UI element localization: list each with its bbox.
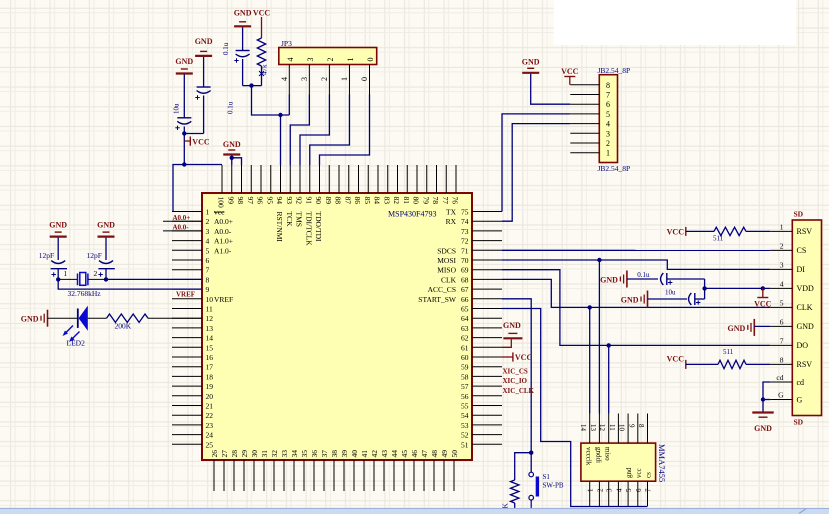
svg-text:RSV: RSV	[797, 360, 813, 369]
svg-text:6: 6	[635, 488, 643, 492]
wire JP3 pin4 to RST net	[288, 95, 290, 116]
accelerometer U2 top pins 14-8	[590, 414, 648, 444]
wire GND to LED cathode	[48, 317, 78, 319]
svg-text:0.1u: 0.1u	[227, 101, 235, 114]
wire C-10u to VDD	[695, 298, 705, 300]
ground GND (LED)	[21, 310, 48, 327]
svg-text:19: 19	[206, 382, 214, 391]
svg-text:4: 4	[606, 120, 610, 129]
svg-text:45: 45	[400, 450, 409, 458]
svg-text:vccclk: vccclk	[585, 447, 593, 466]
svg-text:46: 46	[410, 450, 419, 458]
svg-text:MMA7455: MMA7455	[657, 444, 667, 482]
connector SD body	[792, 220, 821, 416]
svg-text:53: 53	[461, 421, 469, 430]
svg-text:4: 4	[286, 58, 295, 62]
svg-text:30: 30	[250, 450, 259, 458]
svg-text:VCC: VCC	[754, 299, 772, 308]
wire JP3 pin0 to TDO	[320, 95, 370, 166]
svg-text:XIC_CS: XIC_CS	[503, 368, 528, 376]
svg-text:14: 14	[579, 424, 587, 432]
wire branch to pin98	[232, 158, 242, 165]
svg-text:3: 3	[300, 77, 309, 81]
wire RST to MCU pin94	[280, 115, 282, 165]
wire JP3 pin2 to TMS	[300, 95, 329, 166]
junction	[182, 131, 186, 135]
svg-text:GND: GND	[621, 296, 639, 305]
svg-text:8: 8	[780, 355, 784, 364]
svg-text:58: 58	[461, 372, 469, 381]
svg-text:98: 98	[236, 197, 245, 205]
svg-text:66: 66	[461, 295, 469, 304]
wire VCC node horizontal	[184, 133, 203, 135]
junction	[249, 83, 253, 87]
svg-text:56: 56	[461, 392, 469, 401]
svg-text:2: 2	[94, 269, 98, 278]
wire GND to C-10u	[183, 75, 185, 118]
svg-text:28: 28	[230, 450, 239, 458]
svg-text:4: 4	[780, 279, 784, 288]
capacitor 0.1u (left)	[195, 87, 210, 100]
svg-text:85: 85	[363, 197, 372, 205]
svg-text:37: 37	[320, 450, 329, 458]
svg-text:1: 1	[206, 208, 210, 217]
svg-text:20: 20	[206, 392, 214, 401]
svg-text:44: 44	[390, 450, 399, 458]
wire VCC node to MCU pin100/pin1	[173, 134, 184, 212]
svg-text:55: 55	[461, 402, 469, 411]
svg-text:68: 68	[461, 275, 469, 284]
svg-text:78: 78	[431, 197, 440, 205]
wire G pin	[763, 399, 770, 401]
svg-text:2: 2	[780, 241, 784, 250]
svg-text:84: 84	[373, 197, 382, 205]
junction MOSI/MMA di	[597, 258, 601, 262]
svg-text:95: 95	[265, 197, 274, 205]
svg-text:12pF: 12pF	[39, 251, 54, 260]
wire CLK branch to MMA7455 pin14	[589, 307, 591, 413]
capacitor 10u	[175, 118, 191, 130]
svg-text:11: 11	[206, 305, 213, 314]
svg-text:9: 9	[206, 285, 210, 294]
svg-text:94: 94	[275, 197, 284, 205]
junction cd/G	[761, 397, 765, 401]
svg-text:MISO: MISO	[437, 266, 456, 275]
svg-text:100: 100	[217, 197, 226, 209]
svg-text:32.768kHz: 32.768kHz	[68, 289, 102, 298]
scrollbar (window chrome)	[0, 508, 829, 514]
svg-text:8: 8	[637, 424, 645, 428]
svg-text:VCC: VCC	[667, 227, 685, 236]
ground GND (JB pin6)	[522, 58, 540, 73]
svg-text:22: 22	[206, 411, 214, 420]
svg-text:34: 34	[290, 450, 299, 458]
svg-text:5: 5	[780, 298, 784, 307]
svg-text:40: 40	[350, 450, 359, 458]
svg-text:TMS: TMS	[295, 212, 304, 227]
svg-text:RSV: RSV	[797, 227, 813, 236]
svg-text:65: 65	[461, 305, 469, 314]
svg-text:52: 52	[461, 431, 469, 440]
svg-text:4: 4	[206, 237, 210, 246]
svg-text:A0.0+: A0.0+	[214, 217, 233, 226]
svg-text:VCC: VCC	[192, 137, 210, 146]
svg-text:VDD: VDD	[797, 284, 815, 293]
svg-text:61: 61	[461, 343, 469, 352]
svg-text:69: 69	[461, 266, 469, 275]
ground GND (10u bypass)	[621, 291, 648, 308]
svg-text:GND: GND	[522, 58, 540, 67]
svg-text:GND: GND	[21, 315, 39, 324]
svg-text:GND: GND	[754, 424, 772, 433]
connector JB2.54_8P pins	[570, 85, 599, 153]
svg-text:57: 57	[461, 382, 469, 391]
svg-text:JP3: JP3	[281, 39, 292, 48]
resistor 47k	[257, 38, 268, 75]
wire MISO net (pin69 to SD DO)	[502, 270, 770, 346]
svg-text:1: 1	[346, 58, 355, 62]
capacitor 12pF C2	[98, 261, 114, 277]
resistor 511 (pin8 pullup)	[718, 360, 746, 368]
ground GND (MCU pins 98/99)	[223, 140, 241, 155]
junction CLK/MMA clk	[588, 305, 592, 309]
svg-text:miso: miso	[604, 447, 612, 461]
svg-text:81: 81	[402, 197, 411, 205]
ground GND (MCU pin61)	[502, 321, 522, 347]
svg-text:87: 87	[343, 197, 352, 205]
MCU U1 left pins 1-25	[172, 212, 202, 445]
svg-text:vcc: vcc	[214, 208, 225, 217]
power VCC port (JB pin8)	[561, 67, 579, 85]
svg-text:10u: 10u	[173, 103, 181, 114]
svg-text:TX: TX	[446, 208, 457, 217]
MCU U1 top pins 76-100	[222, 165, 456, 193]
LED LED2	[63, 306, 88, 342]
svg-text:SD: SD	[794, 210, 804, 219]
ground GND (12pF C1)	[49, 221, 67, 237]
svg-text:3: 3	[206, 227, 210, 236]
wire C-0.1u down to VCC node	[203, 96, 205, 134]
ground GND (0.1u cap)	[195, 37, 213, 56]
wire GND to JB pin6	[531, 74, 571, 104]
svg-text:17: 17	[206, 363, 214, 372]
svg-text:2: 2	[320, 77, 329, 81]
wire R-511b to SD pin8	[746, 363, 770, 365]
resistor 200K	[107, 314, 149, 322]
svg-text:32: 32	[270, 450, 279, 458]
wire JP3 pin1 to TDI	[310, 95, 350, 166]
wire pin65 net to MMA7455 cs	[502, 309, 648, 507]
svg-text:77: 77	[441, 197, 450, 205]
svg-text:DI: DI	[797, 265, 806, 274]
svg-text:63: 63	[461, 324, 469, 333]
svg-text:90: 90	[314, 197, 323, 205]
svg-text:38: 38	[330, 450, 339, 458]
svg-text:76: 76	[451, 197, 460, 205]
svg-text:DO: DO	[797, 341, 809, 350]
svg-text:G: G	[778, 391, 784, 400]
svg-text:1: 1	[780, 222, 784, 231]
svg-text:7: 7	[606, 91, 610, 100]
accelerometer U2 top pin numbers	[579, 424, 645, 432]
svg-text:GND: GND	[223, 140, 241, 149]
wire RST node	[243, 85, 262, 87]
svg-text:15: 15	[206, 343, 214, 352]
wire GND to C-10u bypass	[648, 298, 688, 300]
capacitor 12pF C1	[51, 261, 67, 277]
junction	[278, 113, 282, 117]
svg-text:cs: cs	[645, 472, 653, 478]
wire LED to R-200K	[88, 317, 107, 319]
svg-text:2: 2	[206, 217, 210, 226]
svg-text:0.1u: 0.1u	[637, 271, 650, 279]
svg-text:73: 73	[461, 227, 469, 236]
wire branch to resistor R-47K	[515, 453, 532, 480]
white overlay patch top-right	[554, 0, 797, 45]
wire START_SW net (pin66 to switch S1)	[502, 299, 531, 473]
wire C1 to XIN node	[57, 269, 59, 280]
svg-text:6: 6	[780, 317, 784, 326]
wire GND to C2	[105, 238, 107, 260]
svg-text:5: 5	[625, 488, 633, 492]
wire JP3 pin3 to TCK	[290, 95, 309, 166]
svg-text:67: 67	[461, 285, 469, 294]
wire A0.0- stub	[163, 230, 202, 232]
connector JP3 outer pin numbers	[280, 77, 369, 81]
svg-text:A0.0-: A0.0-	[214, 227, 232, 236]
wire GND to C-0.1u	[203, 57, 205, 87]
svg-text:VCC: VCC	[253, 9, 271, 18]
wire A0.0+ stub	[163, 220, 202, 222]
svg-text:GND: GND	[728, 324, 746, 333]
svg-text:79: 79	[421, 197, 430, 205]
svg-text:7: 7	[780, 336, 784, 345]
svg-text:GND: GND	[234, 9, 252, 18]
svg-text:83: 83	[382, 197, 391, 205]
svg-text:35: 35	[300, 450, 309, 458]
wire cap junction vertical	[704, 279, 706, 299]
MCU U1 MSP430F4793 body	[202, 193, 472, 460]
svg-text:A1.0+: A1.0+	[214, 237, 233, 246]
svg-text:1: 1	[587, 488, 595, 492]
svg-text:27: 27	[220, 450, 229, 458]
connector JP3 body	[279, 48, 377, 65]
svg-text:GND: GND	[175, 57, 193, 66]
svg-text:6: 6	[606, 100, 610, 109]
svg-text:18: 18	[206, 372, 214, 381]
svg-text:24: 24	[206, 431, 214, 440]
svg-text:RX: RX	[446, 217, 457, 226]
connector JB2.54_8P pin numbers	[606, 81, 610, 158]
svg-text:cd: cd	[776, 373, 783, 382]
connector JP3 pins	[289, 65, 369, 95]
svg-text:JB2.54_8P: JB2.54_8P	[598, 66, 631, 75]
svg-text:A0.0-: A0.0-	[173, 224, 190, 232]
wire cd to G	[763, 382, 770, 412]
svg-text:80: 80	[412, 197, 421, 205]
wire MISO branch to MMA7455 pin12	[608, 345, 610, 413]
junction node XOUT	[104, 277, 108, 281]
svg-text:MOSI: MOSI	[437, 256, 456, 265]
svg-text:SD: SD	[794, 418, 804, 427]
svg-text:12: 12	[206, 314, 214, 323]
svg-text:51: 51	[461, 440, 469, 449]
wire GND to SD pin6	[754, 325, 770, 327]
svg-text:1: 1	[606, 149, 610, 158]
junction	[230, 156, 234, 160]
svg-text:97: 97	[246, 197, 255, 205]
resistor 47K (switch pulldown)	[501, 480, 519, 514]
svg-text:60: 60	[461, 353, 469, 362]
svg-text:10: 10	[206, 295, 214, 304]
svg-text:GND: GND	[49, 221, 67, 230]
svg-text:XIC_CLK: XIC_CLK	[503, 387, 535, 395]
power VCC port (47k pullup)	[253, 9, 271, 39]
svg-text:5: 5	[206, 246, 210, 255]
power VCC port (SD VDD)	[754, 288, 772, 308]
ground GND (10u cap)	[175, 57, 193, 74]
svg-text:LED2: LED2	[67, 338, 86, 347]
svg-text:47: 47	[420, 450, 429, 458]
wire MOSI branch to MMA7455 pin13	[598, 260, 600, 414]
svg-text:2: 2	[596, 488, 604, 492]
svg-text:23: 23	[206, 421, 214, 430]
svg-text:GND: GND	[97, 221, 115, 230]
svg-text:vcc: vcc	[635, 468, 643, 478]
svg-text:0.1u: 0.1u	[222, 42, 230, 55]
svg-text:89: 89	[324, 197, 333, 205]
power VCC port (SD pin1 pullup)	[667, 227, 686, 237]
resistor 511 (pin1 pullup)	[714, 227, 746, 235]
svg-text:3: 3	[306, 58, 315, 62]
svg-text:13: 13	[589, 424, 597, 432]
svg-text:74: 74	[461, 217, 469, 226]
svg-text:4: 4	[615, 488, 623, 492]
MCU U1 bottom pin numbers	[210, 450, 459, 458]
wire VCC to R-511	[686, 230, 714, 232]
svg-text:VCC: VCC	[561, 67, 579, 76]
svg-text:12: 12	[598, 424, 606, 432]
svg-text:XIC_IO: XIC_IO	[503, 377, 528, 385]
wire GND to C3	[242, 27, 244, 50]
svg-text:7: 7	[206, 266, 210, 275]
ground GND (SD pin6)	[728, 319, 755, 336]
ground GND (RST cap)	[234, 9, 252, 27]
svg-text:2: 2	[326, 58, 335, 62]
junction MISO/MMA miso	[607, 343, 611, 347]
svg-text:13: 13	[206, 324, 214, 333]
wire 47k to RST node with no-ERC cross	[259, 66, 264, 86]
ground GND (SD G pin)	[752, 413, 773, 434]
svg-text:9: 9	[627, 424, 635, 428]
svg-text:CS: CS	[797, 246, 807, 255]
svg-text:96: 96	[256, 197, 265, 205]
svg-text:50: 50	[450, 450, 459, 458]
svg-text:TDO/TDI: TDO/TDI	[314, 212, 323, 242]
svg-text:1: 1	[340, 77, 349, 81]
svg-text:200K: 200K	[115, 321, 132, 330]
power VCC port (SD pin8 pullup)	[667, 354, 686, 369]
svg-text:3: 3	[780, 260, 784, 269]
wire VCC to R-511b	[686, 363, 718, 365]
capacitor 0.1u (RST)	[234, 51, 249, 63]
svg-text:VCC: VCC	[667, 354, 685, 363]
wire C2 to XOUT node	[105, 269, 107, 280]
svg-text:92: 92	[295, 197, 304, 205]
svg-text:GND: GND	[195, 37, 213, 46]
svg-text:49: 49	[440, 450, 449, 458]
svg-text:26: 26	[210, 450, 219, 458]
svg-text:71: 71	[461, 246, 469, 255]
svg-text:4: 4	[280, 77, 289, 81]
wire resistor lower lead	[514, 503, 516, 508]
wire XOUT to MCU pin8	[106, 278, 202, 280]
wire RST node down-right	[252, 86, 290, 115]
svg-text:511: 511	[723, 348, 734, 356]
svg-text:10u: 10u	[665, 288, 676, 296]
svg-text:33: 33	[280, 450, 289, 458]
junction START_SW/R pulldown	[529, 451, 533, 455]
svg-text:86: 86	[353, 197, 362, 205]
connector JB2.54_8P body	[599, 75, 617, 163]
svg-text:54: 54	[461, 411, 469, 420]
junction VDD/caps	[702, 286, 706, 290]
accelerometer U2 MMA7455 body	[581, 443, 656, 481]
power VCC port (left)	[184, 137, 210, 147]
svg-text:82: 82	[392, 197, 401, 205]
svg-text:88: 88	[334, 197, 343, 205]
svg-text:5: 5	[606, 110, 610, 119]
svg-text:G: G	[797, 395, 803, 404]
svg-text:VREF: VREF	[214, 295, 233, 304]
MCU U1 left pin numbers and names	[206, 208, 234, 450]
svg-text:2: 2	[606, 139, 610, 148]
svg-text:39: 39	[340, 450, 349, 458]
svg-text:SDCS: SDCS	[437, 246, 456, 255]
svg-text:14: 14	[206, 334, 214, 343]
MCU U1 top pin numbers and JTAG pin names	[217, 197, 460, 247]
svg-text:511: 511	[713, 234, 724, 242]
connector JP3 pin numbers inside	[286, 58, 375, 62]
svg-text:29: 29	[240, 450, 249, 458]
wire MOSI net (pin70 to SD DI)	[502, 260, 770, 269]
junction	[182, 162, 186, 166]
wire TX net (pin75 to JB pin5)	[502, 114, 570, 212]
svg-text:CLK: CLK	[441, 275, 457, 284]
svg-text:3: 3	[606, 488, 614, 492]
wire CLK net (pin68 to SD CLK)	[502, 279, 770, 307]
svg-text:31: 31	[260, 450, 269, 458]
svg-text:TDI/TCLK: TDI/TCLK	[304, 212, 313, 247]
svg-text:3: 3	[606, 129, 610, 138]
svg-text:91: 91	[304, 197, 313, 205]
svg-text:START_SW: START_SW	[418, 295, 457, 304]
svg-text:64: 64	[461, 314, 469, 323]
wire R-511 to SD pin1	[746, 230, 770, 232]
svg-text:41: 41	[360, 450, 369, 458]
capacitor 10u bypass	[689, 293, 701, 305]
svg-text:6: 6	[206, 256, 210, 265]
wire C-0.1u to VDD	[667, 278, 705, 280]
svg-text:MSP430F4793: MSP430F4793	[388, 210, 436, 219]
svg-text:8: 8	[206, 275, 210, 284]
wire C-10u to VCC node	[183, 127, 185, 134]
svg-text:gnd: gnd	[625, 467, 633, 478]
svg-text:12pF: 12pF	[87, 251, 102, 260]
svg-text:SW-PB: SW-PB	[543, 482, 564, 490]
svg-text:75: 75	[461, 208, 469, 217]
MCU U1 right pins 51-75	[472, 212, 502, 445]
